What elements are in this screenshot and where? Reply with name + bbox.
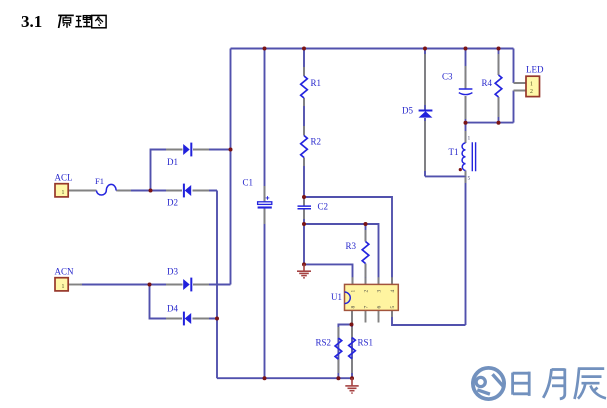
node D1 cathode [229, 148, 233, 152]
wire R4 column [498, 49, 500, 123]
svg-text:F1: F1 [95, 176, 104, 186]
node ACL junction [149, 189, 153, 193]
svg-text:1: 1 [62, 190, 65, 196]
U1 notch redrawn over box [345, 292, 351, 304]
ACL pin stub [68, 190, 97, 192]
svg-text:R2: R2 [311, 137, 322, 147]
node RS1 bottom / ground [350, 376, 354, 380]
svg-text:LED: LED [526, 65, 544, 75]
D5 leads [424, 54, 426, 171]
wire left positive column x=230.5 [230, 49, 232, 285]
D2 leads [166, 190, 209, 192]
svg-text:3.1: 3.1 [21, 12, 42, 31]
svg-text:D2: D2 [167, 198, 178, 208]
R2 leads [303, 126, 305, 166]
wire ACN row [80, 284, 179, 286]
C2 leads [303, 199, 305, 219]
connector LED [526, 76, 540, 96]
svg-text:5: 5 [468, 176, 471, 182]
node ACN junction [148, 283, 152, 287]
C3 leads [465, 66, 467, 119]
T1 coil leads [465, 131, 467, 176]
watermark 日 [513, 372, 530, 396]
node R3 top [364, 222, 368, 226]
svg-text:RS2: RS2 [316, 338, 332, 348]
R1 leads [303, 67, 305, 106]
resistor R3 [362, 242, 369, 264]
RS2 leads [337, 327, 339, 373]
wire C2 top to U1 pin4 [304, 197, 392, 284]
svg-text:D1: D1 [167, 157, 178, 167]
transformer T1 coil [462, 143, 465, 171]
wire T1 pin5 to U1 pin5 [392, 310, 466, 325]
svg-text:2: 2 [364, 290, 370, 293]
diode D5 [419, 111, 433, 117]
title 原理图 (hand-drawn CJK strokes) [58, 15, 106, 28]
R3 leads [365, 230, 367, 277]
wire D1 cathode to column [196, 149, 231, 151]
wire x=217 column down [216, 191, 218, 379]
node RS2 bottom [336, 376, 340, 380]
wire D3 cathode to column [196, 284, 231, 286]
wire top rail [231, 48, 514, 50]
wire gnd node to U1 pin1 [304, 264, 353, 284]
connector ACL [55, 184, 68, 197]
diode D1 [183, 144, 190, 155]
svg-text:C1: C1 [243, 178, 254, 188]
wire R column x=304 top [303, 49, 305, 265]
svg-text:R1: R1 [311, 78, 322, 88]
ACN pin stub [68, 284, 82, 286]
node C2 top [302, 195, 306, 199]
svg-text:5: 5 [390, 306, 396, 309]
理 [76, 15, 82, 17]
logo tail [477, 390, 490, 394]
svg-text:6: 6 [377, 306, 383, 309]
node secondary left [464, 121, 468, 125]
LED pin stubs [514, 83, 527, 91]
wire D4 anode to column [195, 318, 217, 320]
capacitor C2 plates [298, 206, 312, 209]
svg-text:7: 7 [364, 306, 370, 309]
svg-text:3: 3 [377, 290, 383, 293]
op-amp U1 body [345, 284, 399, 310]
svg-text:1: 1 [351, 290, 357, 293]
wire C1 column [264, 49, 266, 379]
svg-text:ACL: ACL [55, 173, 73, 183]
U1 notch [345, 292, 351, 304]
svg-text:U1: U1 [331, 292, 342, 302]
logo ring [473, 368, 504, 399]
svg-text:R3: R3 [346, 241, 357, 251]
ground under C2 [297, 264, 311, 277]
原 [58, 14, 74, 16]
svg-text:1: 1 [530, 82, 533, 88]
U1 top pin stubs [353, 277, 393, 284]
watermark 辰 [575, 369, 607, 399]
svg-text:1: 1 [62, 284, 65, 290]
svg-text:R4: R4 [482, 78, 493, 88]
node D4 junction [215, 317, 219, 321]
fuse right stub [116, 190, 131, 192]
diode D2 [185, 185, 192, 196]
node T1 phase dot [459, 168, 462, 171]
svg-text:ACN: ACN [55, 267, 75, 277]
RS1 leads [351, 327, 353, 373]
D1 leads [166, 149, 209, 151]
node U1 pin8 [350, 323, 354, 327]
node ground left [302, 262, 306, 266]
node C2 bottom [302, 222, 306, 226]
svg-text:2: 2 [530, 89, 533, 95]
svg-text:D5: D5 [402, 106, 413, 116]
wire secondary bottom rail [466, 122, 514, 124]
svg-text:4: 4 [390, 290, 396, 293]
diode D3 [183, 279, 190, 290]
diodes filled [183, 110, 433, 326]
wire LED pin1 feed [513, 49, 515, 84]
svg-text:C2: C2 [318, 202, 329, 212]
C1 leads [264, 186, 266, 224]
ground under RS1 [345, 378, 358, 393]
resistor RS2 [335, 338, 342, 359]
wire D5 column [424, 49, 426, 177]
wire ACN down to D4 [150, 285, 180, 319]
wire R3 top lead [365, 224, 367, 284]
D3 leads [166, 284, 209, 286]
wire D2 anode to x=217 column [195, 190, 217, 192]
node top rail junctions [263, 47, 267, 51]
wire RS2 branch [338, 325, 351, 379]
wire D1 anode branch [151, 150, 180, 191]
connector ACN [55, 278, 68, 291]
wire C2 bottom to U1 pin3 [304, 224, 379, 284]
svg-text:D4: D4 [167, 304, 178, 314]
wire C3/T1 column [465, 49, 467, 326]
resistor R1 [301, 76, 308, 98]
svg-text:D3: D3 [167, 267, 178, 277]
svg-text:1: 1 [468, 136, 471, 142]
watermark 月 [543, 369, 565, 399]
svg-text:RS1: RS1 [358, 338, 374, 348]
D4 leads [166, 318, 209, 320]
wire U1 pin8 / RS1 column [351, 310, 353, 378]
U1 pin numbers top 1 2 3 4 [351, 290, 397, 309]
capacitor C3 plates [459, 88, 473, 90]
T1 bottom stub [465, 177, 467, 183]
svg-text:8: 8 [351, 306, 357, 309]
resistor R2 [301, 136, 308, 158]
U1 bottom pin stubs [352, 310, 392, 324]
svg-text:T1: T1 [449, 147, 459, 157]
wire LED pin2 drain [513, 91, 515, 123]
resistor R4 [495, 75, 502, 97]
diode D4 [185, 313, 192, 324]
node R4 bottom [497, 121, 501, 125]
fuse F1 [97, 184, 117, 195]
svg-text:C3: C3 [442, 72, 453, 82]
wire bottom rail [217, 377, 352, 379]
R4 leads [498, 54, 500, 117]
logo inner circle [476, 377, 485, 386]
logo slash [493, 374, 504, 386]
capacitor C1 plates [258, 202, 272, 205]
wire fuse to junction, D2 row [118, 190, 180, 192]
wire D5 to T1 pin5 [425, 175, 466, 177]
node C1 bottom [263, 376, 267, 380]
transformer T1 core [472, 142, 475, 171]
图 [92, 15, 106, 27]
resistor RS1 [349, 338, 356, 359]
